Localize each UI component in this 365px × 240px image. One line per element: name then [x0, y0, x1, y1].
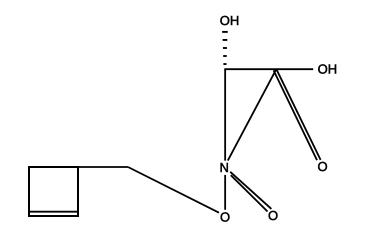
svg-text:OH: OH — [318, 61, 338, 76]
double bond C2=O line 1 — [276, 69, 320, 160]
double bond N=O line 2 — [231, 175, 268, 211]
bond O-N — [224, 175, 226, 210]
bond C2-N — [228, 69, 276, 160]
svg-text:N: N — [220, 160, 229, 175]
cyclobutene double bond inner line — [30, 211, 77, 213]
cyclobutene ring — [29, 167, 78, 216]
bond CH2-O — [128, 167, 219, 213]
bond ring-CH2 — [78, 166, 128, 168]
bond C1-C2 and C2-OH horizontal — [224, 68, 313, 70]
hashed wedge C1-OH — [222, 31, 228, 33]
svg-text:O: O — [268, 208, 278, 223]
svg-text:O: O — [318, 159, 328, 174]
double bond N=O line 1 — [230, 172, 271, 209]
bond N-C1 — [224, 69, 226, 160]
svg-text:OH: OH — [220, 13, 240, 28]
double bond C2=O line 2 — [274, 70, 317, 160]
svg-text:O: O — [220, 209, 230, 224]
